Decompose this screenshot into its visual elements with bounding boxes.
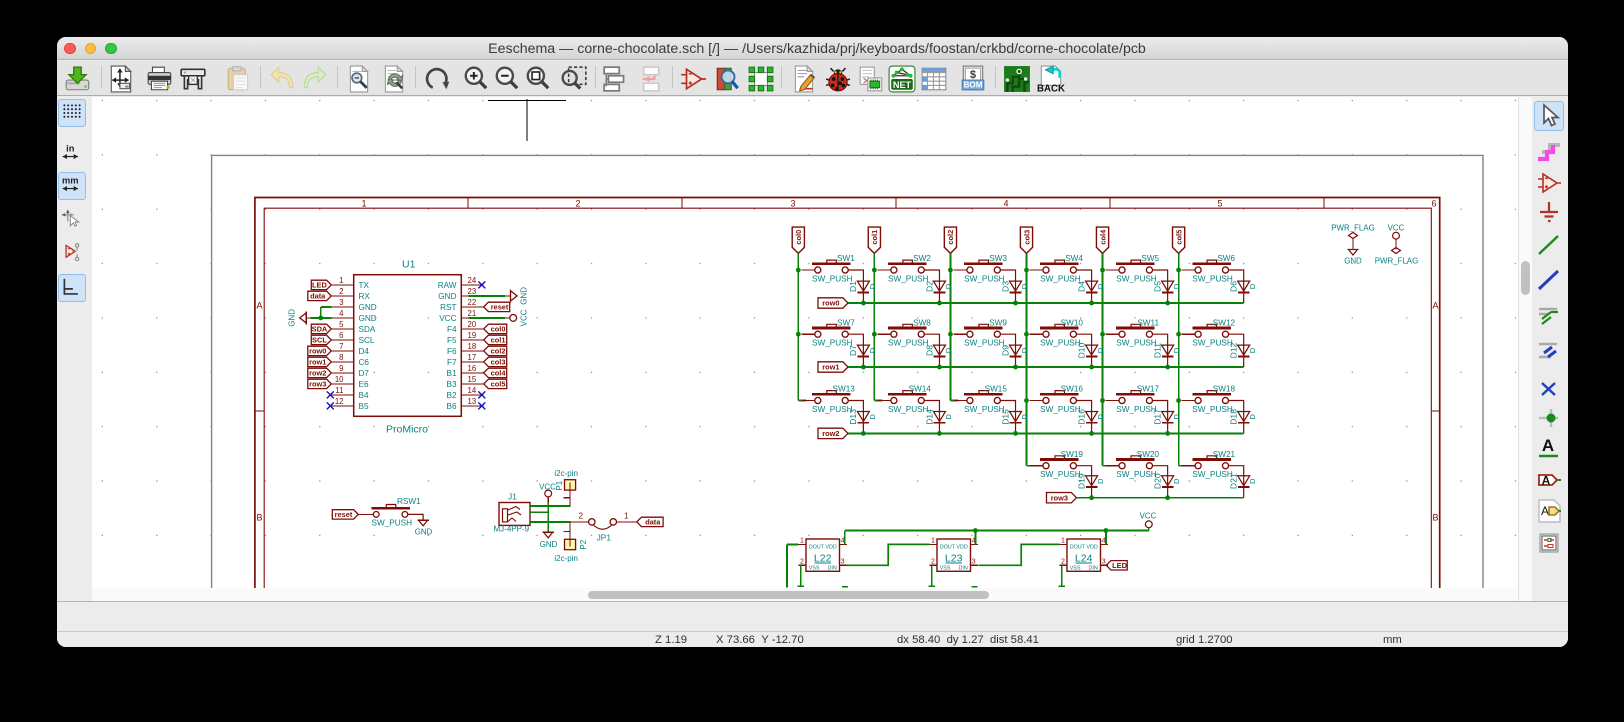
wire pin23 GND [469,295,506,297]
wire col0 [797,253,799,400]
svg-text:data: data [310,292,326,301]
svg-text:SW_PUSH: SW_PUSH [1192,405,1233,414]
junction D20 to row [1165,495,1170,500]
svg-text:reset: reset [335,510,353,519]
svg-text:D: D [1248,414,1257,420]
switch SW14 SW_PUSH [874,400,882,402]
LED L23 [937,539,971,571]
svg-text:col5: col5 [1174,230,1183,245]
diode D18 [1238,412,1250,422]
svg-text:D: D [1172,347,1181,353]
svg-text:col2: col2 [491,347,506,356]
svg-text:D: D [1096,347,1105,353]
svg-text:1: 1 [800,538,804,545]
svg-text:SDA: SDA [312,325,328,334]
svg-text:VSS: VSS [940,565,951,571]
svg-text:mm: mm [62,175,79,185]
svg-text:TX: TX [359,281,370,290]
junction D5 to row [1165,301,1170,306]
wire L23 pin2 down [931,565,933,586]
svg-text:22: 22 [468,298,477,307]
svg-text:1: 1 [339,276,343,285]
svg-text:15: 15 [468,375,477,384]
wire col2 [949,253,951,400]
diode D19 [1086,476,1098,486]
junction col5 row0 [1176,268,1181,273]
jumper JP1 [570,521,588,523]
svg-text:in: in [66,143,75,153]
switch SW4 SW_PUSH [1029,269,1043,271]
svg-text:7: 7 [339,342,343,351]
no-connect pin 14 [478,391,485,398]
junction D9 to row [1013,365,1018,370]
junction col3 row2 [1024,398,1029,403]
svg-text:D18: D18 [1229,409,1239,425]
switch SW15 SW_PUSH [950,400,958,402]
sheet frame [255,198,1440,589]
svg-text:F5: F5 [447,336,457,345]
global label SCL [311,335,331,344]
global label LED [311,280,331,289]
svg-text:D16: D16 [1076,409,1086,425]
svg-text:D11: D11 [1152,343,1162,358]
svg-text:D: D [1020,283,1029,289]
switch SW5 SW_PUSH [1106,269,1120,271]
svg-text:9: 9 [339,364,343,373]
svg-text:SW_PUSH: SW_PUSH [812,274,853,283]
U1 pin 20 F4 [461,328,483,330]
svg-text:col4: col4 [491,369,507,378]
diode D3 [1010,281,1022,291]
svg-text:col1: col1 [491,336,506,345]
global label row0 [308,346,332,355]
global label col5 [484,379,507,388]
svg-text:DOUT: DOUT [940,544,956,550]
svg-text:PWR_FLAG: PWR_FLAG [1331,224,1374,233]
cursor crosshair [488,100,566,102]
svg-text:10: 10 [335,375,344,384]
svg-text:row0: row0 [822,299,839,308]
wire stubs at canvas bottom [842,586,848,588]
svg-text:1: 1 [1061,538,1065,545]
switch SW13 SW_PUSH [798,400,806,402]
svg-text:SW6: SW6 [1217,254,1235,263]
svg-text:VDD: VDD [825,544,836,550]
power symbol GND at J1 [543,531,554,533]
svg-text:2: 2 [579,511,584,520]
wire L23 pin3 to L24 pin1 [979,544,1060,565]
power symbol VCC right [505,317,510,319]
svg-text:SW_PUSH: SW_PUSH [964,405,1005,414]
svg-text:VCC: VCC [1388,224,1405,233]
wire row2 [848,432,1244,434]
junction D11 to row [1165,365,1170,370]
global label row3 [1047,493,1077,503]
svg-text:D: D [944,414,953,420]
switch RSW1 SW_PUSH [332,510,358,519]
svg-text:5: 5 [339,320,344,329]
svg-text:D: D [1248,283,1257,289]
no-connect pin 13 [478,402,485,409]
svg-text:D12: D12 [1229,342,1239,358]
wire L24 pin2 down [1061,565,1063,586]
switch SW11 SW_PUSH [1106,333,1120,335]
svg-text:D8: D8 [924,345,934,356]
svg-text:VSS: VSS [1070,565,1081,571]
svg-text:SW_PUSH: SW_PUSH [1116,339,1157,348]
diode D13 [857,412,869,422]
wire pin21 VCC [469,317,506,319]
svg-text:VDD: VDD [1086,544,1097,550]
svg-text:24: 24 [468,276,477,285]
svg-text:1: 1 [361,199,366,209]
global label data [637,517,663,526]
svg-text:D4: D4 [1076,281,1086,292]
global label row1 [818,362,848,372]
switch SW7 SW_PUSH [801,333,815,335]
svg-text:12: 12 [335,397,344,406]
svg-text:P1: P1 [555,480,564,490]
diode D16 [1086,412,1098,422]
global label col0 [484,324,507,333]
U1 pin 21 VCC [461,317,468,319]
diode D7 [857,345,869,355]
jumper P2 i2c-pin [565,539,576,549]
svg-text:GND: GND [438,292,456,301]
wire L22 pin1 down [787,543,799,545]
svg-text:SW_PUSH: SW_PUSH [1040,274,1081,283]
svg-text:3: 3 [339,298,343,307]
svg-text:1: 1 [931,538,935,545]
diode D11 [1162,345,1174,355]
U1 pin 17 F7 [461,361,483,363]
svg-text:19: 19 [468,331,477,340]
junction D7 to row [861,365,866,370]
junction col2 row0 [948,268,953,273]
junction col5 row1 [1176,332,1181,337]
svg-text:SW15: SW15 [985,385,1008,394]
switch SW6 SW_PUSH [1182,269,1196,271]
svg-text:SDA: SDA [359,325,376,334]
svg-text:3: 3 [841,559,845,566]
U1 pin 18 F6 [461,350,483,352]
svg-text:F7: F7 [447,358,457,367]
svg-text:row3: row3 [1051,493,1068,502]
diode D5 [1162,281,1174,291]
U1 pin 14 B2 [461,394,483,396]
svg-text:D10: D10 [1076,342,1086,358]
svg-text:D7: D7 [359,369,370,378]
junction VCC line L23 [973,528,978,533]
wire L22 pin3 to L23 pin1 [847,544,930,565]
svg-text:row2: row2 [822,429,839,438]
svg-text:RSW1: RSW1 [397,497,421,506]
svg-text:SW13: SW13 [833,385,856,394]
svg-text:DOUT: DOUT [1070,544,1086,550]
svg-text:D: D [868,283,877,289]
junction D14 to row [937,431,942,436]
svg-text:DIN: DIN [828,565,837,571]
global label reset [484,302,510,311]
svg-text:A: A [1542,474,1551,488]
switch SW16 SW_PUSH [1029,400,1043,402]
svg-text:D2: D2 [924,281,934,292]
svg-text:A: A [256,301,262,311]
svg-text:$: $ [970,69,976,81]
svg-text:i2c-pin: i2c-pin [554,554,578,563]
svg-text:6: 6 [339,331,343,340]
U1 pin 4 GND [331,317,353,319]
U1 pin 3 GND [331,306,353,308]
svg-text:23: 23 [468,287,477,296]
svg-text:SW21: SW21 [1213,450,1236,459]
svg-text:SW_PUSH: SW_PUSH [1116,405,1157,414]
svg-text:i2c-pin: i2c-pin [554,469,578,478]
switch SW17 SW_PUSH [1106,400,1120,402]
svg-text:SW_PUSH: SW_PUSH [964,339,1005,348]
svg-text:VCC: VCC [1140,511,1157,520]
diode D4 [1086,281,1098,291]
diode D14 [933,412,945,422]
svg-text:D: D [1172,414,1181,420]
svg-text:6: 6 [1431,199,1436,209]
U1 pin 12 B5 [331,405,353,407]
svg-text:B1: B1 [446,369,456,378]
svg-text:JP1: JP1 [597,532,612,542]
svg-text:col4: col4 [1098,229,1107,245]
svg-text:DOUT: DOUT [809,544,825,550]
svg-text:GND: GND [288,309,297,327]
junction col1 row1 [872,332,877,337]
svg-text:B: B [256,513,262,523]
switch SW10 SW_PUSH [1029,333,1043,335]
svg-text:2: 2 [800,559,804,566]
junction col4 row0 [1100,268,1105,273]
U1 pin 5 SDA [331,328,353,330]
global label col4 [1096,227,1108,253]
wire col3 [1025,253,1027,465]
switch SW12 SW_PUSH [1182,333,1196,335]
diode D10 [1086,345,1098,355]
svg-text:SW11: SW11 [1137,318,1159,327]
svg-text:2: 2 [931,559,935,566]
junction D3 to row [1013,301,1018,306]
junction D15 to row [1013,431,1018,436]
svg-text:A: A [1432,301,1438,311]
svg-text:col5: col5 [491,380,506,389]
global label LED [1106,561,1127,570]
global label SDA [311,324,331,333]
svg-text:SW_PUSH: SW_PUSH [812,405,853,414]
global label col1 [484,335,507,344]
svg-text:row0: row0 [309,347,326,356]
svg-text:RST: RST [440,303,456,312]
junction D10 to row [1089,365,1094,370]
svg-text:SW5: SW5 [1141,254,1159,263]
wire row0 [848,302,1244,304]
svg-text:VCC: VCC [520,309,529,326]
svg-text:VCC: VCC [539,482,556,491]
diode D9 [1010,345,1022,355]
svg-text:D17: D17 [1152,409,1162,425]
global label col1 [868,227,880,253]
svg-text:VSS: VSS [809,565,820,571]
wire VCC to LEDs [1148,528,1150,531]
U1 pin 16 B1 [461,372,483,374]
svg-text:D: D [868,414,877,420]
svg-text:SW_PUSH: SW_PUSH [812,339,853,348]
svg-text:GND: GND [540,540,558,549]
svg-text:col1: col1 [870,230,879,245]
svg-text:SW_PUSH: SW_PUSH [1116,470,1157,479]
svg-text:3: 3 [972,559,976,566]
svg-text:SCL: SCL [312,336,327,345]
LED L24 [1067,539,1101,571]
svg-text:D: D [1172,478,1181,484]
svg-text:reset: reset [491,303,509,312]
switch SW18 SW_PUSH [1182,400,1196,402]
no-connect pin 12 [327,402,334,409]
svg-text:B6: B6 [446,402,456,411]
wire col5 [1178,253,1180,465]
switch SW3 SW_PUSH [953,269,967,271]
svg-text:col0: col0 [491,325,506,334]
switch SW21 SW_PUSH [1179,465,1187,467]
svg-text:D: D [1096,414,1105,420]
svg-text:SW1: SW1 [837,254,855,263]
svg-text:C6: C6 [359,358,370,367]
svg-text:20: 20 [468,320,477,329]
junction D13 to row [861,431,866,436]
grid dots [102,100,1516,536]
svg-text:D: D [944,283,953,289]
junction col5 row2 [1176,398,1181,403]
svg-text:B5: B5 [359,402,369,411]
switch SW9 SW_PUSH [953,333,967,335]
diode D15 [1010,412,1022,422]
svg-text:D: D [868,347,877,353]
svg-text:PWR_FLAG: PWR_FLAG [1375,257,1418,266]
switch SW20 SW_PUSH [1103,465,1111,467]
svg-text:SW17: SW17 [1137,385,1160,394]
svg-text:SW2: SW2 [913,254,931,263]
svg-text:F6: F6 [447,347,457,356]
svg-text:col3: col3 [491,358,506,367]
wire VCC-GND riser [547,502,549,532]
svg-text:P2: P2 [579,539,588,549]
svg-text:RAW: RAW [438,281,457,290]
page boundary [212,155,1483,588]
svg-text:SW7: SW7 [837,318,855,327]
svg-text:BACK: BACK [1037,83,1065,93]
junction col0 row0 [796,268,801,273]
svg-text:B4: B4 [359,391,369,400]
global label row0 [818,298,848,308]
svg-text:RX: RX [359,292,371,301]
svg-text:DIN: DIN [1089,565,1098,571]
svg-text:row3: row3 [309,380,326,389]
switch SW1 SW_PUSH [801,269,815,271]
svg-text:SW18: SW18 [1213,385,1236,394]
svg-text:3: 3 [790,199,795,209]
junction VCC line L24 [1104,528,1109,533]
global label row1 [308,357,332,366]
svg-text:E6: E6 [359,380,369,389]
U1 pin 7 D4 [331,350,353,352]
power symbol GND left [306,317,310,319]
U1 pin 13 B6 [461,405,483,407]
svg-text:2: 2 [575,199,580,209]
svg-text:GND: GND [415,528,433,537]
svg-text:SW_PUSH: SW_PUSH [1192,470,1233,479]
global label row2 [308,368,332,377]
svg-text:SCL: SCL [359,336,375,345]
svg-text:D3: D3 [1000,281,1010,292]
global label col4 [484,368,507,377]
diode D17 [1162,412,1174,422]
wire pin4 to GND [310,317,331,319]
svg-text:row1: row1 [309,358,326,367]
power symbol VCC at J1 [545,490,552,497]
svg-text:16: 16 [468,364,477,373]
U1 pin 22 RST [461,306,483,308]
svg-text:D15: D15 [1000,409,1010,425]
global label col0 [792,227,804,253]
svg-text:D20: D20 [1152,473,1162,489]
svg-text:D19: D19 [1076,473,1086,489]
wire col4 [1102,253,1104,465]
svg-text:GND: GND [359,303,377,312]
svg-text:B3: B3 [446,380,456,389]
junction col4 row1 [1100,332,1105,337]
diode D8 [933,345,945,355]
junction col2 row1 [948,332,953,337]
svg-text:SW12: SW12 [1213,318,1236,327]
global label col3 [1020,227,1032,253]
svg-text:F4: F4 [447,325,457,334]
junction D8 to row [937,365,942,370]
global label col3 [484,357,507,366]
U1 pin 10 E6 [331,383,353,385]
svg-text:LED: LED [312,281,327,290]
svg-text:SW_PUSH: SW_PUSH [964,274,1005,283]
svg-text:data: data [645,518,661,527]
svg-text:1: 1 [624,511,629,520]
svg-text:21: 21 [468,309,477,318]
svg-text:SW_PUSH: SW_PUSH [1116,274,1157,283]
U1 pin 2 RX [331,295,353,297]
svg-text:J1: J1 [508,492,517,502]
svg-text:SW16: SW16 [1061,385,1084,394]
svg-text:D21: D21 [1229,473,1239,489]
global label col2 [484,346,507,355]
U1 pin 11 B4 [331,394,353,396]
global label row2 [818,428,848,438]
svg-text:B: B [1432,513,1438,523]
svg-text:D: D [1096,283,1105,289]
svg-text:SW_PUSH: SW_PUSH [372,519,413,528]
junction D2 to row [937,301,942,306]
junction D1 to row [861,301,866,306]
svg-text:GND: GND [520,287,529,305]
global label col2 [944,227,956,253]
junction col3 row0 [1024,268,1029,273]
svg-text:DIN: DIN [959,565,968,571]
svg-text:D: D [1020,347,1029,353]
svg-text:D7: D7 [848,345,858,356]
junction D16 to row [1089,431,1094,436]
svg-text:VCC: VCC [439,314,456,323]
